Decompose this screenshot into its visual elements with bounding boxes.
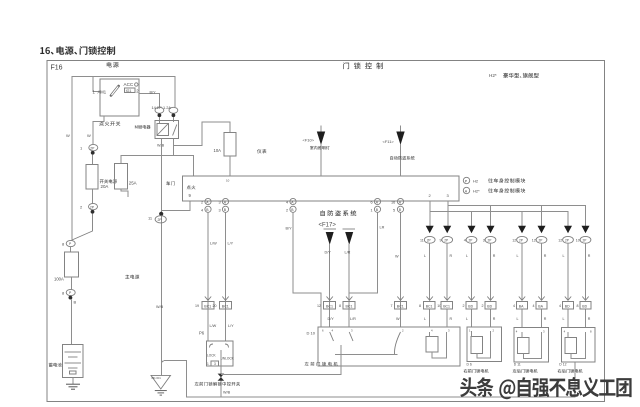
- battery: [63, 345, 84, 378]
- wire: relay contact output to junction box pin: [173, 138, 193, 176]
- svg-text:D 10: D 10: [307, 331, 316, 336]
- svg-text:2P: 2P: [90, 146, 95, 150]
- svg-text:10: 10: [226, 179, 230, 183]
- wire: drop to ignition switch AM1: [93, 77, 100, 92]
- svg-text:10: 10: [576, 239, 580, 243]
- D10 motor: [426, 336, 438, 352]
- svg-text:W: W: [66, 133, 70, 138]
- svg-text:W/B: W/B: [156, 305, 164, 309]
- svg-text:2P: 2P: [444, 238, 448, 242]
- svg-text:F16: F16: [51, 65, 63, 72]
- svg-text:L: L: [424, 254, 426, 258]
- svg-text:3: 3: [351, 329, 353, 333]
- svg-text:2P: 2P: [583, 238, 587, 242]
- svg-text:H2*: H2*: [489, 73, 497, 78]
- arrow into connector col5: [518, 226, 526, 234]
- connector 19 BC1: [205, 297, 211, 301]
- svg-text:4: 4: [286, 201, 288, 205]
- connector 4 BA col5: [519, 297, 525, 301]
- door lock motor D11 box: [514, 328, 549, 363]
- wire: pin3 down to unlock bus: [447, 201, 449, 226]
- arrow from F17 L/R: [343, 228, 356, 230]
- svg-text:R: R: [544, 254, 547, 258]
- wire: pin 2B down and jog to D10: [293, 212, 321, 326]
- svg-text:D/Y: D/Y: [328, 317, 335, 321]
- label 室内照明灯: [310, 146, 330, 150]
- D10 inner link: [335, 354, 398, 356]
- D11 motor: [518, 338, 530, 354]
- connector 7 BC1: [397, 297, 403, 301]
- wire: unlock bus: [448, 205, 586, 226]
- relay coil: [157, 124, 169, 136]
- svg-text:LR: LR: [380, 226, 385, 230]
- svg-text:3: 3: [219, 208, 221, 212]
- wire into 20A fuse: [92, 155, 94, 165]
- svg-text:AM1: AM1: [98, 90, 107, 95]
- svg-text:W: W: [396, 317, 400, 321]
- svg-text:8: 8: [419, 304, 421, 308]
- svg-text:B: B: [224, 208, 227, 212]
- svg-text:W/B: W/B: [157, 144, 165, 148]
- ignition switch lever: [111, 86, 119, 96]
- label 右前门锁电机: [464, 369, 489, 373]
- master door lock switch box: [207, 341, 234, 366]
- svg-text:19: 19: [195, 304, 199, 308]
- svg-text:11: 11: [420, 239, 424, 243]
- svg-text:8: 8: [62, 291, 65, 296]
- wire: D10 ground to bus: [221, 366, 341, 375]
- svg-text:2P: 2P: [565, 238, 569, 242]
- wire col8 R to D12: [585, 243, 587, 300]
- arrow into connector col4: [487, 226, 495, 234]
- svg-text:BC1: BC1: [222, 304, 229, 308]
- ignition switch SW box: [100, 79, 139, 116]
- svg-text:2: 2: [482, 304, 484, 308]
- label 仪表: [257, 149, 266, 153]
- arrow into connector col3: [468, 226, 476, 234]
- svg-text:2P: 2P: [488, 238, 492, 242]
- wire: relay output branch left to 25A fuse: [121, 156, 173, 164]
- wire: ground bus from triangle column to bottom bus: [162, 361, 576, 397]
- arrow into connector col2: [443, 226, 451, 234]
- svg-text:10A: 10A: [214, 148, 222, 153]
- svg-text:25A: 25A: [129, 181, 137, 186]
- svg-text:2: 2: [402, 329, 404, 333]
- svg-text:B: B: [291, 208, 294, 212]
- svg-text:2P: 2P: [427, 238, 431, 242]
- svg-text:1: 1: [207, 362, 209, 366]
- connector marks at master switch output: [218, 374, 225, 378]
- svg-text:9: 9: [440, 239, 442, 243]
- svg-text:12: 12: [317, 304, 321, 308]
- svg-text:2P: 2P: [539, 238, 543, 242]
- relay box: [155, 120, 179, 138]
- svg-text:BA: BA: [519, 304, 524, 308]
- svg-text:7: 7: [391, 304, 393, 308]
- svg-text:R: R: [588, 317, 591, 321]
- label 车门: [166, 181, 174, 185]
- svg-text:R: R: [493, 254, 496, 258]
- svg-text:2: 2: [493, 329, 495, 333]
- fuse 10A: [224, 132, 236, 156]
- svg-text:BC1: BC1: [346, 304, 353, 308]
- svg-text:100A: 100A: [54, 277, 64, 282]
- wire: junction box pin9 to ground column: [162, 201, 191, 211]
- svg-text:L/W: L/W: [210, 324, 217, 328]
- svg-text:BA: BA: [538, 304, 543, 308]
- svg-text:6: 6: [322, 329, 324, 333]
- svg-text:L: L: [517, 254, 519, 258]
- svg-text:8: 8: [339, 304, 341, 308]
- wire: lock bus: [430, 211, 568, 226]
- note A H2* to BCM: [463, 187, 469, 193]
- fuse 25A: [115, 164, 128, 190]
- fuse 开关电源20A: [86, 165, 98, 190]
- label 自动防盗系统: [390, 156, 414, 160]
- svg-text:D 6: D 6: [467, 362, 472, 366]
- wire col6 R to D11: [541, 243, 543, 300]
- svg-text:20: 20: [213, 304, 217, 308]
- svg-text:D 11: D 11: [514, 362, 521, 366]
- section label 门锁控制: [343, 62, 383, 69]
- ground below battery: [72, 378, 74, 385]
- svg-text:12: 12: [558, 239, 562, 243]
- label 左前门锁电机: [305, 362, 338, 366]
- wire: pin 1B LR down join F17: [349, 212, 377, 293]
- svg-text:D/Y: D/Y: [325, 251, 332, 255]
- wire: left column down: [71, 135, 73, 241]
- svg-text:12: 12: [512, 239, 516, 243]
- wire: 10A fuse down to junction box: [229, 156, 231, 176]
- svg-text:2: 2: [463, 304, 465, 308]
- label 右后门锁电机: [558, 369, 583, 373]
- label 自防盗系统 F17: [320, 210, 356, 216]
- connector 4 BD col7: [565, 297, 571, 301]
- svg-text:4: 4: [564, 329, 566, 333]
- svg-text:BC1: BC1: [426, 304, 433, 308]
- svg-text:2P: 2P: [469, 238, 473, 242]
- fuse connector pair right: [169, 107, 178, 113]
- svg-text:ACC: ACC: [124, 82, 134, 87]
- svg-text:3: 3: [214, 362, 216, 366]
- connector 10 BC1 col2: [444, 297, 450, 301]
- svg-text:2: 2: [201, 201, 203, 205]
- svg-text:3: 3: [483, 239, 485, 243]
- svg-text:4: 4: [332, 329, 334, 333]
- svg-text:R: R: [450, 254, 453, 258]
- svg-text:L: L: [563, 254, 565, 258]
- svg-text:L/Y: L/Y: [228, 324, 234, 328]
- wire L/W column to master switch: [207, 212, 209, 341]
- svg-text:BC1: BC1: [326, 304, 333, 308]
- svg-text:IG1: IG1: [126, 89, 132, 93]
- svg-text:L/Y: L/Y: [228, 242, 234, 246]
- label 点火 pin9: [187, 185, 196, 189]
- svg-text:20A: 20A: [101, 184, 109, 189]
- svg-text:4: 4: [533, 304, 535, 308]
- svg-text:6: 6: [371, 201, 373, 205]
- connector 20 BC1: [222, 297, 228, 301]
- svg-text:2P: 2P: [90, 205, 95, 209]
- wire col3 L to D6: [471, 243, 473, 300]
- note P H2 to BCM: [463, 177, 469, 183]
- svg-text:2P: 2P: [519, 238, 523, 242]
- svg-text:1: 1: [469, 329, 471, 333]
- svg-text:W: W: [395, 255, 399, 259]
- svg-text:<F10>: <F10>: [303, 138, 315, 143]
- wire col1 L to D10 motor: [429, 243, 431, 300]
- wire: pin2 down to lock bus: [429, 201, 431, 226]
- ignition switch IG1 terminal box: [125, 88, 136, 93]
- svg-text:W/B: W/B: [223, 391, 231, 395]
- wire: 2 2P bend to battery column: [72, 214, 93, 241]
- svg-text:H2: H2: [473, 179, 479, 184]
- svg-text:10: 10: [437, 304, 441, 308]
- svg-text:3: 3: [448, 329, 450, 333]
- svg-text:4: 4: [513, 304, 515, 308]
- svg-text:2: 2: [429, 193, 432, 198]
- svg-text:3: 3: [219, 201, 221, 205]
- door lock motor D6 box: [467, 327, 502, 362]
- label 主继电器: [135, 125, 151, 129]
- svg-text:BC1: BC1: [397, 304, 404, 308]
- D10 position switch lever: [394, 332, 400, 355]
- label 主电源: [125, 275, 139, 279]
- svg-text:D 12: D 12: [559, 362, 566, 366]
- arrow into connector col7: [564, 226, 572, 234]
- svg-text:8: 8: [590, 329, 592, 333]
- label 左前门锁解锁中控开关: [195, 382, 240, 386]
- wire: pin 5B W down to D10: [400, 212, 402, 326]
- wire: switch bottom pin down: [93, 116, 104, 144]
- svg-text:2P: 2P: [158, 218, 163, 222]
- svg-text:L/W: L/W: [210, 242, 217, 246]
- junction box (body control): [182, 176, 459, 201]
- svg-text:12: 12: [532, 239, 536, 243]
- svg-text:3: 3: [447, 193, 450, 198]
- svg-text:R: R: [493, 317, 496, 321]
- svg-text:L: L: [424, 317, 426, 321]
- wire: IG1 to fuse (B/Y): [139, 94, 159, 108]
- connector 8 BC1: [346, 297, 352, 301]
- svg-text:4: 4: [431, 329, 433, 333]
- svg-text:BD: BD: [565, 304, 570, 308]
- watermark 头条 @自强不息义工团: [460, 377, 631, 399]
- arrow into connector col6: [538, 226, 546, 234]
- svg-text:4: 4: [516, 329, 518, 333]
- connector 2 BD col4: [487, 297, 493, 301]
- label 左后门锁电机: [513, 369, 538, 373]
- svg-text:P: P: [69, 242, 72, 246]
- svg-text:11: 11: [148, 216, 153, 221]
- connector 4 BA col6: [538, 297, 544, 301]
- arrow from F10: [320, 126, 322, 134]
- svg-text:BD: BD: [582, 304, 587, 308]
- label 点火开关: [99, 121, 120, 126]
- svg-text:A: A: [465, 189, 468, 193]
- connector 8 BD col8: [582, 297, 588, 301]
- svg-text:3: 3: [543, 329, 545, 333]
- svg-text:1: 1: [371, 208, 373, 212]
- svg-text:5: 5: [393, 208, 395, 212]
- svg-text:B: B: [376, 208, 379, 212]
- svg-text:LOCK: LOCK: [207, 354, 217, 358]
- D6 motor: [471, 336, 483, 353]
- svg-text:P6: P6: [199, 331, 205, 336]
- svg-text:R: R: [544, 317, 547, 321]
- svg-text:2: 2: [286, 208, 288, 212]
- svg-text:IB1 ID1: IB1 ID1: [152, 376, 162, 380]
- svg-text:L: L: [563, 317, 565, 321]
- wire col2 R to D10 motor: [446, 243, 448, 300]
- svg-text:BC1: BC1: [443, 304, 450, 308]
- svg-text:9: 9: [189, 193, 192, 198]
- fusible link 100A: [65, 252, 79, 277]
- svg-text:BD: BD: [487, 304, 492, 308]
- fuse connector pair (ellipse+dot) left: [155, 107, 164, 113]
- wire: top power bus: [72, 77, 175, 136]
- svg-text:B: B: [74, 300, 77, 305]
- ground triangle G2: [151, 375, 171, 389]
- svg-text:H2*: H2*: [473, 189, 480, 194]
- svg-text:UNLOCK: UNLOCK: [221, 357, 235, 361]
- arrow into connector col1: [426, 226, 434, 234]
- wire: branch up-right to 10A fuse: [173, 122, 230, 145]
- svg-text:L: L: [517, 317, 519, 321]
- wire col4 R to D6: [490, 243, 492, 300]
- svg-text:P: P: [465, 179, 468, 183]
- svg-text:B/Y: B/Y: [286, 227, 293, 231]
- svg-text:L: L: [466, 317, 468, 321]
- svg-text:W: W: [87, 133, 91, 138]
- wire into 100A fuse: [70, 247, 72, 252]
- svg-text:4: 4: [201, 208, 203, 212]
- label 蓄电池: [49, 363, 62, 367]
- connector 2 BD col3: [468, 297, 474, 301]
- svg-text:16: 16: [391, 201, 395, 205]
- connector 12 BC1: [327, 297, 333, 301]
- front left door lock assembly box D10: [318, 327, 460, 366]
- wire L/Y column to master switch: [225, 212, 227, 341]
- arrow from F17 D/Y: [324, 228, 337, 230]
- wire: master switch common down: [220, 350, 222, 397]
- wire: 25A fuse bottom stub: [121, 189, 128, 197]
- svg-text:BC1: BC1: [204, 304, 211, 308]
- svg-text:BD: BD: [468, 304, 473, 308]
- svg-text:8: 8: [577, 304, 579, 308]
- D12 motor: [565, 338, 577, 354]
- svg-text:4: 4: [559, 304, 561, 308]
- connector 8 BC1 col1: [427, 297, 433, 301]
- svg-text:2: 2: [80, 205, 83, 210]
- wire col5 L to D11: [521, 243, 523, 300]
- svg-text:8: 8: [62, 242, 65, 247]
- svg-text:<F17>: <F17>: [319, 223, 337, 229]
- wire: down to battery: [71, 277, 73, 290]
- svg-text:R: R: [450, 317, 453, 321]
- svg-text:4: 4: [464, 239, 466, 243]
- wire: 20A fuse to 2 2P: [92, 189, 94, 203]
- border frame: [47, 61, 605, 402]
- wire col7 L to D12: [567, 243, 569, 300]
- svg-text:B: B: [399, 208, 402, 212]
- svg-text:B/Y: B/Y: [150, 91, 157, 95]
- arrow into connector col8: [582, 226, 590, 234]
- svg-text:1: 1: [80, 146, 83, 151]
- svg-text:L/R: L/R: [350, 317, 356, 321]
- svg-text:B: B: [206, 208, 209, 212]
- relay contact: [173, 125, 177, 136]
- wire: fuses into relay: [158, 117, 160, 124]
- wire: relay coil ground W/B long drop: [161, 138, 163, 375]
- svg-text:R: R: [588, 254, 591, 258]
- D10 lock switch levers: [330, 332, 334, 341]
- door lock motor D12 box: [562, 328, 596, 363]
- arrow from F11: [400, 126, 402, 134]
- svg-text:L/R: L/R: [345, 251, 351, 255]
- svg-text:P: P: [69, 291, 72, 295]
- section label 电源: [107, 62, 119, 68]
- svg-text:L: L: [466, 254, 468, 258]
- connector 11 2P: [159, 212, 163, 216]
- title: [40, 46, 115, 55]
- svg-text:<F11>: <F11>: [383, 139, 395, 144]
